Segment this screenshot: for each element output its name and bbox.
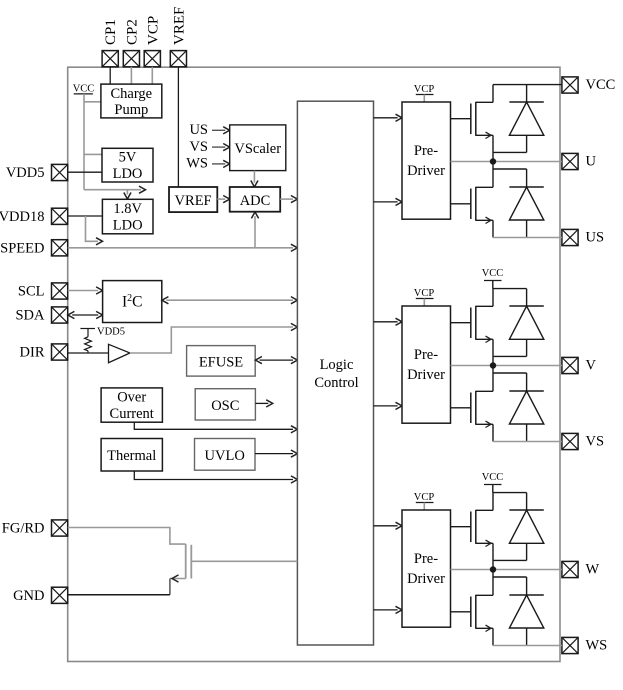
wire Q1 source to GND — [170, 575, 186, 595]
wire source sense VS to pin — [493, 441, 562, 443]
wire UVLO to Logic Control — [255, 450, 297, 457]
wire VCC to Charge Pump — [84, 101, 101, 103]
pin FG/RD (left) — [2, 520, 68, 537]
transistor Q1L (low side) — [471, 187, 493, 238]
svg-text:VCP: VCP — [414, 84, 435, 95]
pin SCL (left) — [18, 283, 68, 300]
wire rail to high-side drain (bridge 2) — [492, 289, 494, 307]
pin VCP (top) — [144, 16, 161, 67]
svg-text:Control: Control — [314, 375, 358, 391]
wire WS to VScaler — [212, 160, 230, 167]
svg-text:CP1: CP1 — [103, 19, 119, 45]
wire ADC to Logic Control — [280, 196, 297, 203]
wire SPEED branch to ADC — [251, 212, 258, 248]
pin VCC (right) — [562, 77, 615, 93]
wire Logic Control to Pre-Driver 2 (lower) — [374, 402, 403, 409]
svg-text:VCP: VCP — [414, 492, 435, 503]
diode D2H (body diode high side) — [493, 306, 544, 356]
svg-text:VCP: VCP — [145, 16, 161, 45]
block Logic Control — [297, 101, 373, 645]
wire SPEED to Logic Control — [68, 244, 298, 251]
svg-text:VREF: VREF — [175, 193, 212, 209]
wire Pre-Driver 2 to high-side gate — [451, 322, 471, 324]
wire source sense WS to pin — [493, 645, 562, 647]
block VREF — [169, 187, 217, 212]
block 1.8V LDO — [102, 199, 153, 234]
wire VDD18 to 1.8V LDO — [68, 215, 103, 217]
pin SDA (left) — [15, 307, 67, 324]
transistor Q3L (low side) — [471, 595, 493, 646]
svg-text:VDD5: VDD5 — [97, 327, 125, 338]
svg-text:SPEED: SPEED — [0, 240, 44, 256]
wire Logic Control to Pre-Driver 1 (lower) — [374, 198, 403, 205]
wire rail to high-side diode cathode (bridge 3) — [526, 493, 528, 510]
svg-text:LDO: LDO — [113, 166, 143, 182]
svg-text:V: V — [586, 358, 597, 374]
wire FG/RD to transistor drain — [68, 528, 186, 545]
wire VS to VScaler — [212, 144, 230, 151]
pin V (right) — [562, 357, 597, 373]
svg-text:OSC: OSC — [211, 398, 239, 414]
wire rail to high-side diode cathode (bridge 2) — [526, 289, 528, 306]
diode D3H (body diode high side) — [493, 510, 544, 560]
transistor Q3H (high side) — [471, 510, 493, 570]
svg-text:SCL: SCL — [18, 284, 45, 300]
wire Logic Control to Pre-Driver 3 (upper) — [374, 522, 403, 529]
wire Logic Control to Pre-Driver 1 (upper) — [374, 114, 403, 121]
block OSC — [195, 389, 255, 420]
wire VCC to 5V LDO — [84, 153, 102, 155]
wire VDD5 to 5V LDO — [68, 171, 102, 173]
svg-text:LDO: LDO — [113, 217, 143, 233]
node WS input label — [186, 156, 208, 172]
block Pre-Driver 2 — [402, 306, 451, 423]
svg-text:US: US — [586, 230, 605, 246]
pin WS (right) — [562, 637, 607, 653]
wire Logic Control to Q1 gate — [191, 560, 297, 562]
svg-text:VS: VS — [586, 434, 605, 450]
svg-text:Driver: Driver — [407, 571, 445, 587]
pin CP2 (top) — [123, 19, 140, 67]
diode D1L (body diode low side) — [509, 187, 543, 238]
node V junction — [490, 362, 496, 368]
svg-text:VREF: VREF — [171, 7, 187, 45]
block ADC — [230, 187, 281, 212]
wire Thermal to Logic Control — [134, 471, 297, 483]
wire Logic Control to Pre-Driver 3 (lower) — [374, 606, 403, 613]
wire phase W to pin — [451, 569, 562, 571]
svg-text:GND: GND — [13, 588, 44, 604]
svg-text:U: U — [586, 154, 597, 170]
buffer U2 (DIR input) — [109, 344, 130, 362]
wire CP1 to Charge Pump — [109, 67, 111, 84]
pin VS (right) — [562, 433, 604, 449]
svg-text:ADC: ADC — [240, 193, 271, 209]
transistor Q2H (high side) — [471, 306, 493, 366]
VDD5 supply symbol (pull-up) — [80, 327, 125, 338]
pin DIR (left) — [20, 344, 68, 361]
svg-text:VScaler: VScaler — [234, 141, 281, 157]
pin VDD18 (left) — [0, 208, 68, 225]
wire phase node to low-side (bridge 1) — [493, 162, 527, 188]
svg-text:VCC: VCC — [586, 77, 616, 93]
diode D1H (body diode high side) — [493, 102, 544, 152]
wire US to VScaler — [212, 127, 230, 134]
wire Logic Control to Pre-Driver 2 (upper) — [374, 318, 403, 325]
VCC supply symbol (bridge 2) — [482, 268, 504, 289]
VCC supply symbol (bridge 3) — [482, 472, 504, 493]
svg-text:VCC: VCC — [482, 472, 504, 483]
svg-text:VCC: VCC — [73, 84, 95, 95]
svg-text:Charge: Charge — [110, 86, 152, 102]
VCC supply symbol — [73, 84, 95, 95]
wire Over Current to Logic Control — [134, 422, 297, 433]
node VS input label — [189, 139, 208, 155]
svg-text:CP2: CP2 — [124, 19, 140, 45]
wire phase U to pin — [451, 161, 562, 163]
wire VCC rail to VCC pin — [493, 84, 562, 86]
transistor Q2L (low side) — [471, 391, 493, 442]
block Pre-Driver 1 — [402, 102, 451, 219]
svg-text:VCP: VCP — [414, 288, 435, 299]
block UVLO — [195, 439, 256, 471]
svg-text:Thermal: Thermal — [107, 448, 156, 464]
transistor Q1H (high side) — [471, 102, 493, 162]
VCP supply symbol (Pre-Driver 2) — [414, 288, 435, 306]
wire SDA to I2C (bidirectional) — [68, 311, 103, 318]
wire source sense US to pin — [493, 237, 562, 239]
svg-text:FG/RD: FG/RD — [2, 521, 45, 537]
wire top rail (bridge 3) — [493, 492, 527, 494]
wire 1.8V LDO output arrow — [86, 216, 103, 245]
block Charge Pump — [101, 84, 162, 118]
svg-text:Pump: Pump — [114, 102, 148, 118]
wire rail to high-side drain (bridge 3) — [492, 493, 494, 511]
svg-text:W: W — [586, 562, 600, 578]
wire phase node to low-side (bridge 2) — [493, 366, 527, 392]
block EFUSE — [187, 346, 256, 377]
svg-text:1.8V: 1.8V — [113, 201, 142, 217]
wire Pre-Driver 3 to high-side gate — [451, 526, 471, 528]
svg-text:WS: WS — [186, 156, 208, 172]
pin CP1 (top) — [102, 19, 119, 67]
svg-text:VDD5: VDD5 — [6, 165, 45, 181]
wire phase node to low-side (bridge 3) — [493, 570, 527, 596]
svg-text:Driver: Driver — [407, 163, 445, 179]
svg-text:Pre-: Pre- — [414, 143, 438, 159]
node U junction — [490, 158, 496, 164]
block I2C U1 — [103, 281, 162, 323]
block Pre-Driver 3 — [402, 510, 451, 627]
wire GND — [68, 594, 170, 596]
block VScaler — [230, 125, 286, 171]
wire phase V to pin — [451, 365, 562, 367]
pin US (right) — [562, 229, 604, 245]
svg-text:DIR: DIR — [20, 345, 45, 361]
svg-text:VCC: VCC — [482, 268, 504, 279]
resistor R1 pull-up — [85, 329, 92, 354]
wire buffer to Logic Control — [130, 323, 298, 353]
transistor Q1 (FG/RD open drain) — [186, 544, 192, 578]
svg-text:UVLO: UVLO — [205, 448, 245, 464]
pin SPEED (left) — [0, 240, 68, 257]
diode D2L (body diode low side) — [509, 391, 543, 442]
svg-text:VS: VS — [189, 139, 208, 155]
pin VREF (top) — [170, 7, 187, 67]
wire VCC rail vertical — [83, 94, 85, 190]
wire 5V to 1.8V LDO arrow — [124, 190, 131, 199]
svg-text:Pre-: Pre- — [414, 551, 438, 567]
VCP supply symbol (Pre-Driver 3) — [414, 492, 435, 510]
pin GND (left) — [13, 587, 68, 604]
wire I2C to Logic Control (bidirectional) — [162, 297, 298, 304]
svg-text:5V: 5V — [119, 150, 137, 166]
block 5V LDO — [102, 148, 153, 182]
wire EFUSE to Logic Control (bidirectional) — [255, 357, 297, 364]
wire top rail (bridge 2) — [493, 288, 527, 290]
svg-text:Over: Over — [117, 390, 146, 406]
wire rail to high-side diode cathode (bridge 1) — [526, 85, 528, 102]
wire VREF to ADC — [217, 196, 229, 203]
wire VCP to Charge Pump — [151, 67, 153, 84]
wire rail to high-side drain (bridge 1) — [492, 85, 494, 103]
pin U (right) — [562, 153, 597, 169]
svg-text:Current: Current — [110, 406, 154, 422]
svg-text:I2C: I2C — [122, 293, 143, 311]
svg-text:EFUSE: EFUSE — [199, 354, 243, 370]
svg-text:US: US — [189, 122, 208, 138]
block Thermal — [101, 439, 162, 472]
block Over Current — [101, 388, 162, 422]
svg-text:WS: WS — [586, 638, 608, 654]
wire CP2 to Charge Pump — [130, 67, 132, 84]
pin W (right) — [562, 561, 600, 577]
wire Pre-Driver 3 to low-side gate — [451, 611, 471, 613]
wire SCL to I2C — [68, 287, 103, 294]
wire VREF pin to VREF block — [177, 67, 179, 187]
IC outer boundary — [68, 67, 560, 661]
svg-text:Driver: Driver — [407, 367, 445, 383]
pin VDD5 (left) — [6, 164, 68, 181]
node W junction — [490, 566, 496, 572]
wire Pre-Driver 2 to low-side gate — [451, 407, 471, 409]
diode D3L (body diode low side) — [509, 595, 543, 646]
svg-text:SDA: SDA — [15, 308, 45, 324]
wire Pre-Driver 1 to low-side gate — [451, 203, 471, 205]
svg-text:VDD18: VDD18 — [0, 209, 45, 225]
node US input label — [189, 122, 208, 138]
wire 5V LDO output arrow — [84, 186, 146, 193]
wire DIR to buffer — [68, 352, 109, 354]
VCP supply symbol (Pre-Driver 1) — [414, 84, 435, 102]
wire Pre-Driver 1 to high-side gate — [451, 118, 471, 120]
svg-text:Pre-: Pre- — [414, 347, 438, 363]
svg-text:Logic: Logic — [320, 357, 354, 373]
wire OSC output arrow — [255, 400, 272, 407]
wire VScaler to ADC — [251, 171, 258, 187]
